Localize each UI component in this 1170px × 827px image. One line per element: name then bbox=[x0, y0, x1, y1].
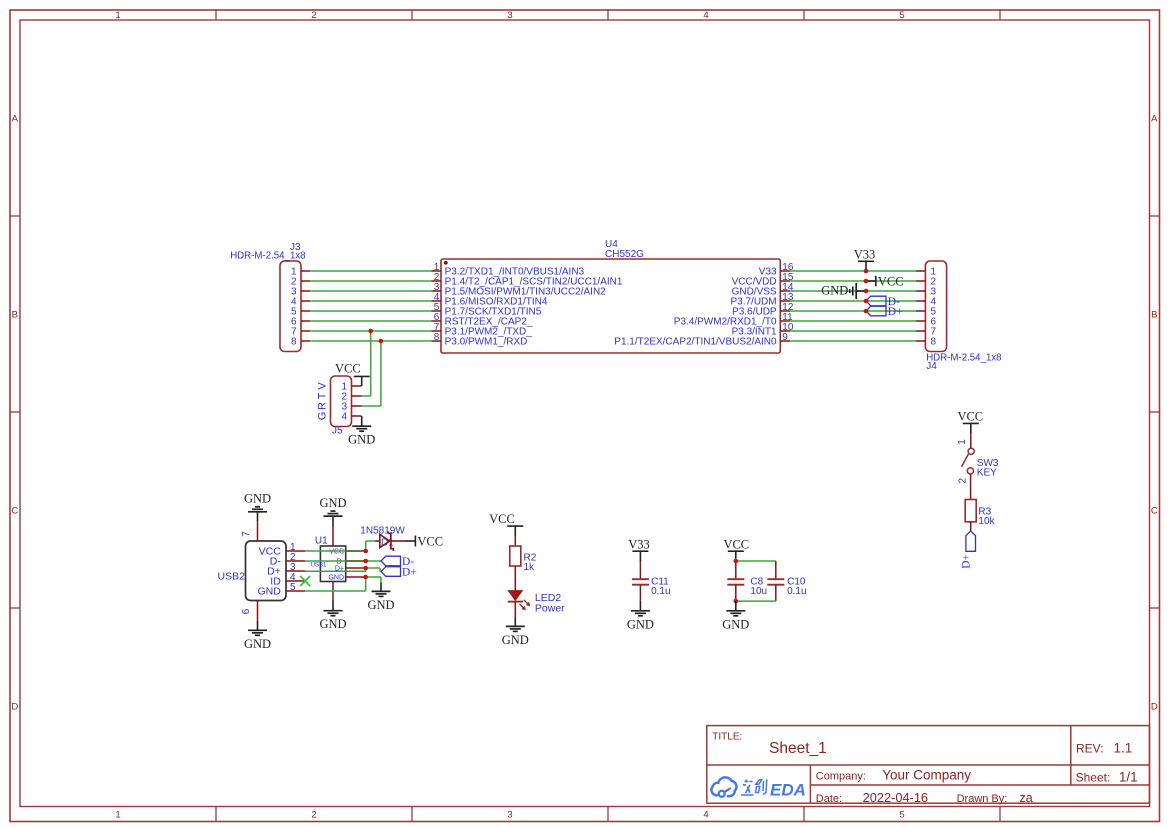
junction dots near J4 bbox=[864, 269, 869, 314]
svg-text:1: 1 bbox=[957, 439, 968, 445]
svg-text:CH552G: CH552G bbox=[605, 249, 644, 260]
wire J3 pin7 to J5 pin2 bbox=[362, 331, 371, 396]
wire VCC to C8 bbox=[735, 558, 737, 579]
connector J4 HDR-M-2.54_1x8 bbox=[916, 261, 1002, 372]
svg-text:VCC: VCC bbox=[329, 549, 344, 556]
wire SW3 to R3 bbox=[970, 474, 972, 500]
junction dot J3 pin7 wire bbox=[368, 329, 373, 334]
ground above U1 bbox=[319, 496, 346, 527]
svg-text:0.1u: 0.1u bbox=[787, 586, 806, 597]
svg-text:U1: U1 bbox=[315, 536, 328, 547]
connector J3 HDR-M-2.54_1x8 bbox=[230, 242, 310, 351]
connector J5 bbox=[316, 376, 361, 437]
svg-text:V33: V33 bbox=[854, 247, 876, 261]
svg-text:GND: GND bbox=[627, 617, 654, 631]
wire V33 to C11 bbox=[639, 561, 641, 579]
svg-text:D-: D- bbox=[337, 559, 345, 566]
svg-text:Company:: Company: bbox=[816, 771, 866, 783]
ground below C8 bbox=[722, 601, 749, 631]
svg-text:Date:: Date: bbox=[816, 793, 842, 805]
svg-text:V: V bbox=[316, 382, 328, 390]
net port D+ below R3 bbox=[961, 531, 976, 569]
svg-text:Sheet:: Sheet: bbox=[1076, 771, 1111, 785]
resistor R3 10k bbox=[965, 500, 995, 527]
svg-text:9: 9 bbox=[782, 332, 788, 343]
wire VCC to SW3 bbox=[970, 433, 972, 448]
ground at J5 pin4 bbox=[348, 416, 375, 447]
svg-text:GND: GND bbox=[722, 617, 749, 631]
net flag V33 bbox=[854, 247, 876, 271]
svg-text:GND: GND bbox=[348, 433, 375, 447]
svg-text:V33: V33 bbox=[628, 537, 650, 551]
wire U1 D- to port bbox=[366, 560, 381, 562]
svg-text:GND: GND bbox=[328, 575, 344, 582]
net flag V33 above C11 bbox=[628, 537, 650, 561]
LCEDA logo text 立创EDA bbox=[741, 780, 806, 800]
svg-text:D: D bbox=[11, 702, 18, 713]
svg-text:1.1: 1.1 bbox=[1114, 741, 1133, 756]
svg-text:VCC: VCC bbox=[417, 535, 443, 549]
svg-text:3: 3 bbox=[507, 810, 512, 821]
connector USB2 body bbox=[218, 521, 306, 621]
svg-text:VCC: VCC bbox=[489, 512, 515, 526]
column numbers bottom bbox=[115, 810, 904, 821]
resistor R2 1k bbox=[510, 546, 537, 573]
svg-text:4: 4 bbox=[341, 412, 347, 423]
diode D1 1N5819W bbox=[360, 525, 405, 551]
capacitor C11 0.1u bbox=[632, 576, 671, 597]
wire C8 to C10 top bbox=[736, 560, 776, 562]
wire U1 D+ to port bbox=[366, 568, 380, 572]
svg-text:A: A bbox=[12, 114, 19, 125]
svg-text:D+: D+ bbox=[402, 566, 417, 578]
svg-text:6: 6 bbox=[241, 608, 252, 614]
svg-text:HDR-M-2.54_1x8: HDR-M-2.54_1x8 bbox=[926, 353, 1001, 364]
svg-text:5: 5 bbox=[899, 810, 904, 821]
svg-text:REV:: REV: bbox=[1076, 742, 1104, 756]
svg-text:D+: D+ bbox=[961, 554, 973, 569]
switch SW3 KEY bbox=[957, 439, 999, 484]
IC U1 body bbox=[311, 527, 366, 601]
wires J3 to U4 bbox=[310, 271, 431, 341]
wire USB2 D- to U1 bbox=[305, 560, 365, 562]
svg-text:2022-04-16: 2022-04-16 bbox=[863, 790, 928, 805]
svg-text:G: G bbox=[316, 412, 328, 421]
svg-text:T: T bbox=[316, 392, 328, 399]
svg-text:B: B bbox=[12, 310, 18, 321]
LCEDA logo cloud icon bbox=[711, 777, 736, 796]
svg-text:B: B bbox=[1151, 310, 1157, 321]
svg-text:VCC: VCC bbox=[335, 362, 361, 376]
svg-text:Your Company: Your Company bbox=[882, 768, 971, 783]
svg-text:5: 5 bbox=[899, 10, 904, 21]
svg-text:GND: GND bbox=[319, 496, 346, 510]
wire C10 to C8 bottom bbox=[736, 600, 776, 602]
wire VCC to R2 bbox=[514, 536, 516, 546]
svg-text:USB1: USB1 bbox=[311, 562, 327, 568]
ground below C11 bbox=[627, 601, 654, 632]
svg-text:J5: J5 bbox=[332, 426, 343, 437]
LED LED2 Power bbox=[508, 591, 565, 615]
svg-text:D: D bbox=[1151, 702, 1158, 713]
svg-text:GND: GND bbox=[319, 617, 346, 631]
capacitor C10 0.1u bbox=[767, 576, 806, 597]
svg-text:GND: GND bbox=[367, 598, 394, 612]
svg-text:J4: J4 bbox=[926, 361, 937, 372]
column ticks bottom bbox=[216, 807, 1000, 822]
svg-text:2: 2 bbox=[958, 477, 969, 483]
svg-text:KEY: KEY bbox=[977, 468, 997, 479]
svg-text:Drawn By:: Drawn By: bbox=[957, 793, 1008, 805]
row letters left bbox=[11, 114, 18, 713]
net flag VCC (wire 2) bbox=[866, 274, 904, 288]
svg-text:P3.0/PWM1_/RXD: P3.0/PWM1_/RXD bbox=[445, 337, 528, 348]
svg-text:1N5819W: 1N5819W bbox=[360, 525, 405, 536]
svg-text:GND: GND bbox=[502, 633, 529, 647]
no-connect X at USB2 ID pin bbox=[300, 576, 310, 586]
net flag VCC above R2 bbox=[489, 512, 523, 536]
wire USB2 GND to U1 bbox=[305, 577, 365, 591]
svg-text:TITLE:: TITLE: bbox=[712, 731, 742, 742]
title block frame bbox=[707, 726, 1150, 804]
wire USB2 D+ to U1 bbox=[305, 568, 365, 571]
svg-text:2: 2 bbox=[311, 10, 316, 21]
svg-text:8: 8 bbox=[931, 337, 937, 348]
svg-text:GND: GND bbox=[244, 492, 271, 506]
wire U1 VCC to diode anode bbox=[366, 541, 376, 551]
capacitor C8 10u bbox=[727, 576, 767, 597]
svg-text:1: 1 bbox=[115, 10, 120, 21]
net flag VCC at diode cathode bbox=[405, 535, 443, 549]
wire R2 to LED2 bbox=[514, 566, 516, 591]
net port D- (wire 4) bbox=[866, 296, 900, 308]
net flag VCC at J5 pin1 bbox=[335, 362, 370, 387]
svg-text:Power: Power bbox=[535, 603, 565, 615]
svg-text:GND: GND bbox=[244, 637, 271, 651]
wire C10 top drop bbox=[775, 561, 777, 579]
svg-text:2: 2 bbox=[311, 810, 316, 821]
U4 right pins 16-9 bbox=[614, 262, 794, 348]
net port D+ (wire 5) bbox=[866, 306, 903, 318]
wires U4 to J4 bbox=[790, 271, 916, 341]
net flag GND (wire 3) bbox=[821, 283, 866, 299]
U4 left pins 1-8 bbox=[431, 262, 623, 348]
wire R3 to D+ port bbox=[970, 522, 972, 531]
junction dots at U1 pins bbox=[363, 549, 368, 580]
column numbers top bbox=[115, 10, 904, 21]
junction dot C8 top bbox=[734, 559, 739, 564]
svg-text:VCC: VCC bbox=[723, 537, 749, 551]
svg-text:0.1u: 0.1u bbox=[651, 586, 670, 597]
svg-text:3: 3 bbox=[507, 10, 512, 21]
ground below U1 bbox=[319, 601, 346, 632]
svg-text:8: 8 bbox=[291, 337, 297, 348]
junction dot J3 pin8 wire bbox=[379, 339, 384, 344]
svg-text:R: R bbox=[316, 402, 328, 410]
net port D- at U1 bbox=[381, 556, 414, 568]
wire C11 to ground bbox=[639, 585, 641, 601]
svg-text:10k: 10k bbox=[978, 516, 995, 527]
wire C10 bottom drop bbox=[775, 585, 777, 601]
svg-text:4: 4 bbox=[703, 810, 708, 821]
wire J3 pin8 to J5 pin3 bbox=[362, 341, 381, 406]
svg-text:7: 7 bbox=[241, 531, 252, 537]
svg-text:C: C bbox=[1151, 506, 1158, 517]
row letters right bbox=[1151, 114, 1158, 713]
ground at USB2 pin7 bbox=[244, 492, 271, 522]
net flag VCC above SW3 bbox=[957, 410, 983, 434]
svg-text:A: A bbox=[1151, 114, 1158, 125]
svg-text:EDA: EDA bbox=[770, 781, 806, 800]
svg-text:GND: GND bbox=[821, 284, 848, 298]
wire LED2 to ground bbox=[514, 602, 516, 617]
net flag VCC above C8 bbox=[723, 537, 749, 558]
svg-text:8: 8 bbox=[434, 332, 440, 343]
wire USB2 VCC to U1 bbox=[305, 550, 365, 552]
ground right of U1 bbox=[367, 583, 394, 612]
net port D+ at U1 bbox=[381, 566, 417, 578]
svg-text:za: za bbox=[1020, 791, 1033, 805]
svg-text:HDR-M-2.54_1x8: HDR-M-2.54_1x8 bbox=[230, 251, 305, 262]
svg-text:USB2: USB2 bbox=[218, 571, 246, 583]
ground below LED2 bbox=[502, 617, 529, 647]
wire U1 GND to ground bbox=[366, 577, 381, 583]
svg-text:VCC: VCC bbox=[878, 274, 904, 288]
column ticks top bbox=[216, 10, 1000, 20]
svg-text:VCC: VCC bbox=[957, 410, 983, 424]
svg-text:1k: 1k bbox=[524, 562, 536, 573]
row ticks left bbox=[10, 216, 20, 608]
svg-text:1/1: 1/1 bbox=[1119, 770, 1138, 785]
row ticks right bbox=[1150, 216, 1160, 608]
svg-text:10u: 10u bbox=[750, 586, 767, 597]
svg-text:5: 5 bbox=[290, 582, 296, 593]
svg-text:C: C bbox=[11, 506, 18, 517]
svg-text:1: 1 bbox=[115, 810, 120, 821]
IC U4 CH552G body bbox=[441, 239, 780, 353]
wire C8 to ground bbox=[735, 585, 737, 601]
svg-text:D+: D+ bbox=[888, 306, 903, 318]
svg-text:4: 4 bbox=[703, 10, 708, 21]
ground at USB2 pin6 bbox=[244, 621, 271, 651]
svg-text:Sheet_1: Sheet_1 bbox=[769, 740, 827, 757]
svg-text:P1.1/T2EX/CAP2/TIN1/VBUS2/AIN0: P1.1/T2EX/CAP2/TIN1/VBUS2/AIN0 bbox=[614, 337, 777, 348]
svg-text:GND: GND bbox=[257, 586, 281, 598]
title block texts bbox=[712, 731, 1137, 805]
junction dot C8 bottom bbox=[734, 599, 739, 604]
